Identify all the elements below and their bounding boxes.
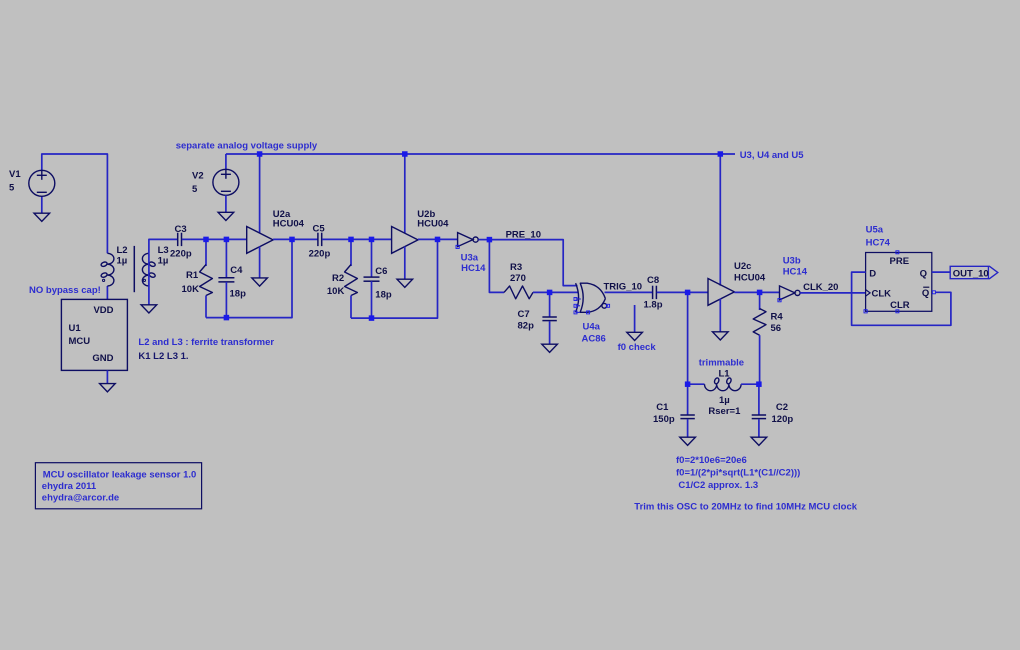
MCU box U1 [61, 299, 127, 370]
svg-text:5: 5 [9, 183, 15, 194]
junction at 371.5,318.1 [369, 315, 375, 321]
wire feedback rail U2b [351, 239, 438, 318]
svg-text:U3a: U3a [461, 252, 479, 263]
transformer core bar [133, 246, 135, 292]
wire U2c output [734, 291, 779, 293]
ground f0 check [627, 332, 643, 340]
capacitor C6 [364, 276, 380, 278]
ground below C2 [751, 437, 767, 445]
capacitor C7 [542, 316, 556, 318]
inductor L1 [705, 384, 742, 391]
svg-text:R2: R2 [332, 273, 344, 284]
svg-text:trimmable: trimmable [699, 357, 744, 368]
svg-text:L1: L1 [719, 369, 731, 380]
junction at 549.6,292.4 [547, 290, 553, 296]
svg-text:C6: C6 [375, 266, 387, 277]
wire C2 branch [758, 384, 760, 415]
inductor L2 [107, 253, 114, 286]
voltage source V1 [29, 170, 55, 196]
resistor R4 [753, 309, 766, 336]
svg-text:HC74: HC74 [866, 238, 891, 249]
svg-text:270: 270 [510, 273, 526, 284]
svg-text:NO bypass cap!: NO bypass cap! [29, 285, 101, 296]
junction at 437.5,239.4 [435, 237, 441, 243]
dff pin square PRE [896, 251, 899, 254]
svg-text:C4: C4 [230, 265, 243, 276]
svg-text:L2: L2 [117, 245, 128, 256]
svg-text:PRE_10: PRE_10 [506, 229, 541, 240]
ground below U2a [252, 278, 268, 286]
wire C7 branch [549, 292, 551, 317]
wire C4 bottom [225, 282, 227, 318]
svg-text:18p: 18p [375, 289, 392, 300]
wire U2a power pin [259, 154, 261, 233]
svg-text:R4: R4 [771, 312, 784, 323]
wire L2 bottom to U1 VDD [106, 286, 108, 299]
svg-text:separate analog voltage supply: separate analog voltage supply [176, 140, 318, 151]
junction at 489.4,239.6 [487, 237, 493, 243]
wire U1 GND to ground [106, 370, 108, 383]
pin square U3a com [456, 245, 459, 248]
wire R4 top [759, 292, 761, 310]
junction at 206,239.4 [203, 237, 209, 243]
svg-text:R1: R1 [186, 270, 199, 281]
svg-text:GND: GND [92, 353, 113, 364]
junction at 687.6,384.2 [685, 381, 691, 387]
wire V2 top stub [225, 154, 227, 169]
ground below C1 [680, 437, 696, 445]
svg-text:HCU04: HCU04 [273, 219, 305, 230]
wire L3 top to C3 [148, 253, 150, 286]
svg-text:82p: 82p [518, 321, 535, 332]
svg-text:1.8p: 1.8p [644, 300, 663, 311]
svg-text:CLK_20: CLK_20 [803, 282, 838, 293]
wire C5 to U2b input [322, 238, 392, 240]
wire V1 top to L2 [42, 154, 108, 253]
svg-text:Trim this OSC to 20MHz to find: Trim this OSC to 20MHz to find 10MHz MCU… [634, 502, 857, 513]
svg-text:1µ: 1µ [719, 395, 730, 406]
svg-text:f0 check: f0 check [618, 342, 657, 353]
svg-text:CLK: CLK [872, 289, 892, 300]
junction at 720.3,154 [718, 151, 724, 157]
svg-text:V2: V2 [192, 171, 204, 182]
svg-text:1µ: 1µ [158, 256, 169, 267]
capacitor C8 [652, 286, 654, 299]
svg-text:U4a: U4a [583, 321, 601, 332]
svg-text:120p: 120p [772, 414, 794, 425]
wire L1 right [741, 383, 759, 385]
inverter U3b [780, 286, 795, 300]
wire L1 left [688, 383, 705, 385]
svg-text:D: D [869, 269, 876, 280]
capacitor C5 [317, 233, 319, 246]
svg-text:C7: C7 [518, 309, 530, 320]
wire R3 to gate [533, 291, 579, 293]
svg-text:220p: 220p [309, 248, 331, 259]
svg-text:CLR: CLR [890, 300, 910, 311]
wire C4 branch top [225, 239, 227, 277]
junction at 758.9,384.2 [756, 381, 762, 387]
wire R2 branch [350, 239, 352, 266]
op-amp U2c inverter [708, 279, 734, 306]
xor com pin square [587, 311, 590, 314]
xor output pin square [607, 305, 608, 307]
junction at 404.8,154 [402, 151, 408, 157]
voltage source V2 [213, 169, 239, 195]
wire R1 branch [205, 239, 207, 266]
junction at 371.5,239.4 [369, 237, 375, 243]
svg-text:f0=2*10e6=20e6: f0=2*10e6=20e6 [676, 455, 747, 466]
wire U2b output to U3a [418, 238, 458, 240]
svg-text:V1: V1 [9, 169, 21, 180]
svg-text:1µ: 1µ [117, 256, 128, 267]
wire C1 branch [687, 384, 689, 415]
svg-text:5: 5 [192, 184, 198, 195]
junction at 292,239.4 [289, 237, 295, 243]
junction at 759.6,292.4 [757, 290, 763, 296]
svg-text:HCU04: HCU04 [734, 272, 766, 283]
wire TRIG_10 [605, 291, 653, 293]
wire C3 to U2a input [182, 238, 247, 240]
pin square U3b com [778, 299, 781, 302]
svg-text:U3, U4 and U5: U3, U4 and U5 [740, 150, 805, 161]
capacitor C1 [680, 414, 694, 416]
junction at 687.6,292.4 [685, 290, 691, 296]
svg-text:C3: C3 [175, 224, 187, 235]
svg-text:L3: L3 [158, 245, 169, 256]
svg-text:U2c: U2c [734, 261, 751, 272]
svg-text:C5: C5 [313, 224, 326, 235]
wire L3 bottom to ground [148, 286, 150, 305]
svg-text:HC14: HC14 [783, 267, 808, 278]
svg-text:10K: 10K [182, 284, 200, 295]
svg-text:U3b: U3b [783, 255, 801, 266]
svg-text:L2 and L3 : ferrite transforme: L2 and L3 : ferrite transformer [138, 337, 274, 348]
ground below U2b [397, 279, 413, 287]
svg-text:AC86: AC86 [582, 333, 606, 344]
svg-text:C1: C1 [656, 402, 669, 413]
svg-text:MCU: MCU [69, 336, 91, 347]
wire Qbar feedback loop [852, 272, 951, 325]
xor output bubble [602, 303, 607, 308]
junction at 351,239.4 [348, 237, 354, 243]
wire U2b power pin [404, 154, 406, 233]
resistor R3 [504, 286, 533, 299]
capacitor C4 [218, 277, 234, 279]
node PRE_10 wire [489, 240, 577, 286]
svg-text:HCU04: HCU04 [417, 219, 449, 230]
svg-text:Q: Q [922, 288, 929, 299]
svg-text:ehydra@arcor.de: ehydra@arcor.de [42, 492, 119, 503]
svg-text:VDD: VDD [93, 305, 113, 316]
svg-text:HC14: HC14 [461, 263, 486, 274]
wire feedback rail U2a [206, 239, 292, 317]
wire to R3 [489, 240, 504, 293]
svg-text:C2: C2 [776, 402, 788, 413]
comment box MCU oscillator leakage sensor [35, 463, 201, 509]
wire U2a ground pin [259, 247, 261, 278]
wire C8 to U2c [657, 291, 708, 293]
svg-text:56: 56 [771, 323, 782, 334]
ground below L3 [141, 305, 157, 313]
inductor L3 [142, 253, 149, 286]
svg-text:f0=1/(2*pi*sqrt(L1*(C1//C2))): f0=1/(2*pi*sqrt(L1*(C1//C2))) [676, 468, 800, 479]
svg-text:150p: 150p [653, 414, 675, 425]
wire f0 check stub [634, 305, 636, 332]
wire U2c ground pin [719, 299, 721, 332]
junction at 226.4,239.4 [224, 237, 230, 243]
wire Q to OUT_10 flag [932, 271, 950, 273]
flip-flop U5a box [866, 253, 932, 312]
resistor R2 [345, 265, 358, 296]
wire V1 bottom stub [41, 197, 43, 214]
dff clock chevron [866, 290, 871, 297]
wire C6 branch [371, 239, 373, 277]
svg-text:PRE: PRE [890, 256, 910, 267]
svg-text:TRIG_10: TRIG_10 [604, 282, 643, 293]
junction at 226.4,317.6 [224, 315, 230, 321]
svg-text:10K: 10K [327, 286, 345, 297]
inverter U3a [458, 233, 473, 247]
svg-text:Rser=1: Rser=1 [708, 406, 741, 417]
ground below V2 [218, 212, 234, 220]
wire U2c power pin [719, 154, 721, 286]
svg-text:MCU oscillator leakage sensor: MCU oscillator leakage sensor 1.0 [43, 469, 197, 480]
wire L1/C1 branch down [687, 292, 689, 384]
svg-text:K1 L2 L3 1.: K1 L2 L3 1. [138, 351, 188, 362]
wire U2a output [273, 238, 318, 240]
dff pin square COM [864, 310, 867, 313]
wire U3a output [478, 239, 489, 241]
ground below V1 [34, 213, 50, 221]
xor gate U4a [576, 283, 579, 312]
svg-text:18p: 18p [230, 289, 247, 300]
svg-text:220p: 220p [170, 248, 192, 259]
svg-text:C1/C2 approx. 1.3: C1/C2 approx. 1.3 [678, 480, 758, 491]
wire CLK_20 [800, 292, 866, 294]
resistor R1 [200, 265, 213, 296]
ground below U2c [713, 332, 729, 340]
xor unused pin squares [576, 298, 581, 300]
wire analog supply rail [226, 153, 735, 155]
ground below U1 [100, 384, 116, 392]
svg-text:C8: C8 [647, 275, 659, 286]
svg-text:ehydra 2011: ehydra 2011 [42, 481, 97, 492]
output flag OUT_10 [950, 266, 998, 278]
svg-text:Q: Q [920, 269, 927, 280]
dff pin square Qbar [932, 291, 935, 294]
svg-text:U1: U1 [69, 323, 82, 334]
junction at 259.6,154 [257, 151, 263, 157]
dff pin square CLR [896, 310, 899, 313]
capacitor C2 [752, 414, 766, 416]
wire U2b ground pin [404, 247, 406, 280]
ground below C7 [542, 344, 558, 352]
svg-text:OUT_10: OUT_10 [953, 269, 989, 280]
op-amp U2b inverter [392, 227, 418, 254]
capacitor C3 [177, 233, 179, 246]
svg-text:U5a: U5a [866, 225, 884, 236]
svg-text:R3: R3 [510, 262, 522, 273]
wire V2 bottom stub [225, 195, 227, 212]
op-amp U2a inverter [247, 227, 273, 254]
